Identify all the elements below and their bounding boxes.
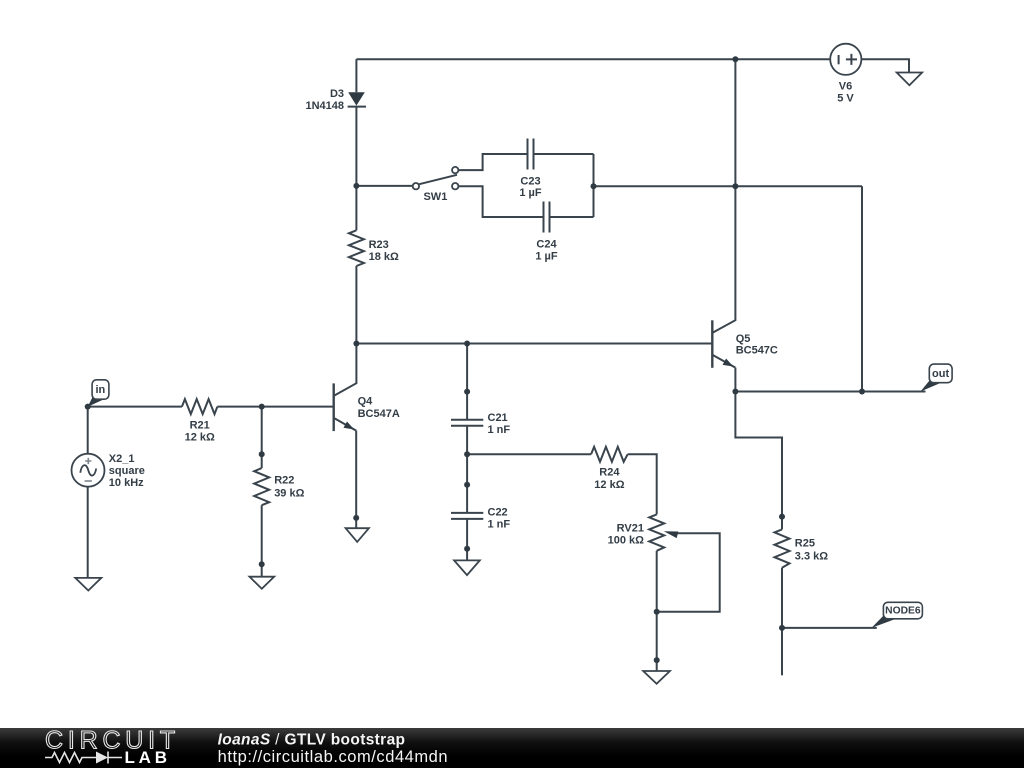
wire V6 right to ground [861,59,909,72]
transistor Q5 [711,320,713,368]
transistor Q4 [333,383,335,431]
wire C24 right plate to box corner [550,216,594,218]
svg-text:C22: C22 [488,506,508,518]
svg-text:BC547C: BC547C [736,345,778,357]
wire R23 bottom to mid rail [355,266,357,344]
svg-text:1N4148: 1N4148 [305,100,344,112]
svg-text:1 µF: 1 µF [519,187,542,199]
svg-text:3.3 kΩ: 3.3 kΩ [795,551,828,563]
resistor R25 [775,529,790,567]
capacitor C24 [544,202,550,233]
svg-text:12 kΩ: 12 kΩ [594,479,624,491]
ground under R22 [250,577,275,589]
wire cap box right edge [593,154,595,217]
svg-text:C24: C24 [536,239,557,251]
wire Q4 emitter to ground [355,431,357,528]
wire base rail Q4 to Q5 [356,343,712,345]
svg-text:100 kΩ: 100 kΩ [608,535,645,547]
wire R25 bottom to NODE6 junction [781,568,783,676]
wire SW1 lower contact to C24 [458,186,543,217]
wire C21 bottom to C22 top [466,426,468,513]
wire mid rail to right drop [594,186,863,391]
svg-text:X2_1: X2_1 [109,453,135,465]
svg-text:NODE6: NODE6 [885,606,921,617]
svg-text:Q5: Q5 [736,333,751,345]
junction dots [732,56,738,62]
wire D3 cathode to SW junction [355,107,357,186]
wire Q4 collector [334,344,357,396]
wire C23 right plate to box corner [534,153,594,155]
diode D3 [348,92,365,105]
svg-text:R25: R25 [795,537,815,549]
ground under C22 [454,560,480,575]
resistor R21 [182,399,218,414]
wire top rail V6 to D3 branch [356,58,830,60]
node flag in [88,398,104,407]
wire R24 to RV21 top [628,454,657,514]
wire Q5 emitter to out rail [734,368,736,392]
wire NODE6 branch [782,627,877,629]
svg-text:SW1: SW1 [423,191,447,203]
svg-text:1 nF: 1 nF [488,518,511,530]
wire C22 bottom to ground [466,519,468,561]
wire out rail [735,391,925,393]
ground under RV21 [643,671,670,684]
switch SW1 [419,175,457,184]
svg-text:V6: V6 [839,81,852,93]
svg-text:18 kΩ: 18 kΩ [369,251,399,263]
potentiometer RV21 [649,514,664,550]
svg-text:out: out [932,368,949,380]
resistor R23 [349,230,364,266]
ground under Q4 emitter [346,528,369,542]
svg-text:1 nF: 1 nF [488,424,511,436]
svg-text:RV21: RV21 [617,523,644,535]
svg-text:Q4: Q4 [358,395,374,407]
resistor R24 [591,447,628,462]
capacitor C23 [528,139,534,170]
wire R22 bottom to ground [261,505,263,577]
svg-text:BC547A: BC547A [358,408,400,420]
svg-text:39 kΩ: 39 kΩ [274,488,304,500]
svg-text:R23: R23 [369,239,389,251]
wire SW1 common stub [356,185,412,187]
wire R22 branch [261,407,263,469]
svg-text:C23: C23 [520,175,540,187]
svg-text:1 µF: 1 µF [535,250,558,262]
svg-text:R21: R21 [190,420,210,432]
svg-text:12 kΩ: 12 kΩ [185,431,215,443]
svg-text:R24: R24 [599,466,620,478]
logo resistor-diode glyph [45,753,96,763]
svg-text:R22: R22 [274,475,294,487]
svg-text:LAB: LAB [125,748,171,767]
svg-text:10 kHz: 10 kHz [109,477,144,489]
wire SW1 top contact to C23 [458,154,527,170]
svg-text:in: in [96,384,106,396]
svg-text:5 V: 5 V [837,92,854,104]
wire Q5 collector drop [712,59,735,333]
wire R24 branch [467,453,591,455]
svg-text:D3: D3 [330,88,344,100]
source X2_1 [72,454,105,487]
wire SW junction to R23 top [355,186,357,230]
wire Q4 base rail from input [88,406,334,408]
svg-text:http://circuitlab.com/cd44mdn: http://circuitlab.com/cd44mdn [218,748,449,766]
wire RV21 wiper loop [657,533,720,612]
wire D3 anode drop [355,59,357,92]
voltage source V6 [830,44,861,75]
svg-text:IoanaS / GTLV bootstrap: IoanaS / GTLV bootstrap [218,731,406,748]
wire C21 top branch [466,344,468,420]
footer bar [0,728,1024,768]
svg-text:square: square [109,465,145,477]
node flag NODE6 [872,616,897,628]
wire Q5 emitter down to R25 [735,392,782,530]
capacitor C22 [451,513,483,519]
capacitor C21 [451,420,483,426]
wire RV21 bottom to ground [656,551,658,671]
svg-text:C21: C21 [488,412,508,424]
resistor R22 [254,468,269,505]
wire in node to X2_1 [87,407,89,454]
wire X2_1 bottom to ground [87,487,89,578]
node flag out [921,381,942,392]
ground under X2_1 [75,578,101,591]
ground near V6 [897,73,922,86]
